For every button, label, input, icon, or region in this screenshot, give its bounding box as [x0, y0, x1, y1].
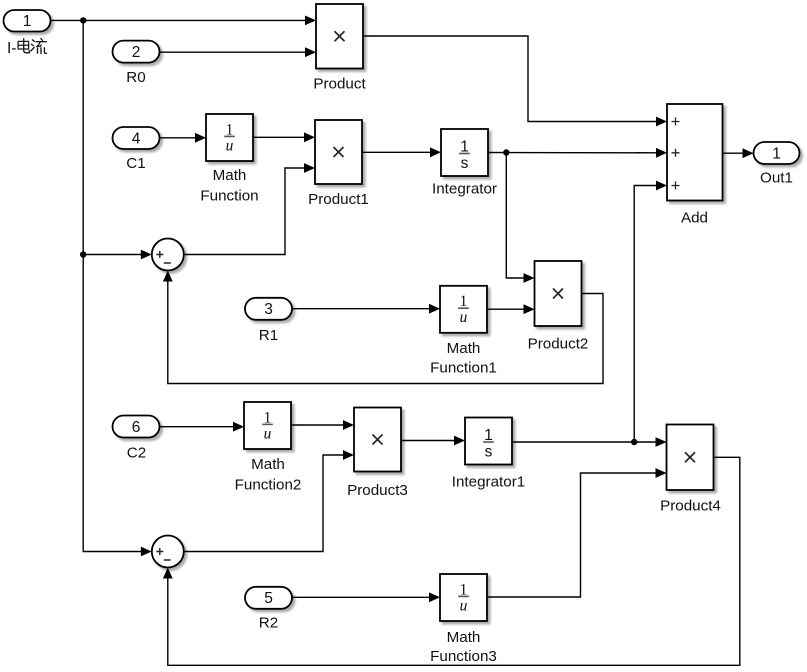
- svg-text:1: 1: [23, 13, 32, 30]
- svg-text:R2: R2: [259, 615, 278, 632]
- svg-text:s: s: [461, 155, 469, 172]
- svg-text:Function2: Function2: [235, 477, 302, 494]
- svg-text:Product4: Product4: [660, 498, 721, 515]
- svg-text:6: 6: [132, 419, 141, 436]
- svg-text:s: s: [485, 443, 493, 460]
- svg-text:Function: Function: [200, 188, 258, 205]
- svg-text:Integrator: Integrator: [432, 181, 497, 198]
- svg-text:u: u: [460, 597, 468, 614]
- svg-text:Math: Math: [213, 167, 247, 184]
- svg-text:Math: Math: [447, 629, 481, 646]
- svg-text:R0: R0: [126, 69, 145, 86]
- svg-text:Math: Math: [447, 340, 481, 357]
- svg-text:4: 4: [132, 130, 141, 147]
- svg-text:Product: Product: [313, 76, 366, 93]
- svg-text:R1: R1: [259, 327, 278, 344]
- svg-text:Product2: Product2: [528, 336, 589, 353]
- svg-text:2: 2: [132, 44, 141, 61]
- svg-text:u: u: [226, 137, 234, 154]
- svg-text:3: 3: [264, 301, 273, 318]
- svg-text:C2: C2: [127, 444, 146, 461]
- svg-text:Integrator1: Integrator1: [452, 473, 525, 490]
- svg-text:Add: Add: [681, 210, 708, 227]
- svg-text:Out1: Out1: [760, 169, 793, 186]
- svg-text:Product1: Product1: [308, 191, 369, 208]
- svg-text:Product3: Product3: [347, 482, 408, 499]
- svg-text:Math: Math: [251, 456, 285, 473]
- svg-text:I-: I-: [7, 40, 16, 57]
- svg-text:u: u: [264, 425, 272, 442]
- svg-text:Function1: Function1: [430, 359, 497, 376]
- svg-text:5: 5: [264, 590, 273, 607]
- svg-text:1: 1: [772, 145, 781, 162]
- svg-text:C1: C1: [126, 155, 145, 172]
- svg-text:Function3: Function3: [430, 648, 497, 665]
- svg-text:u: u: [460, 309, 468, 326]
